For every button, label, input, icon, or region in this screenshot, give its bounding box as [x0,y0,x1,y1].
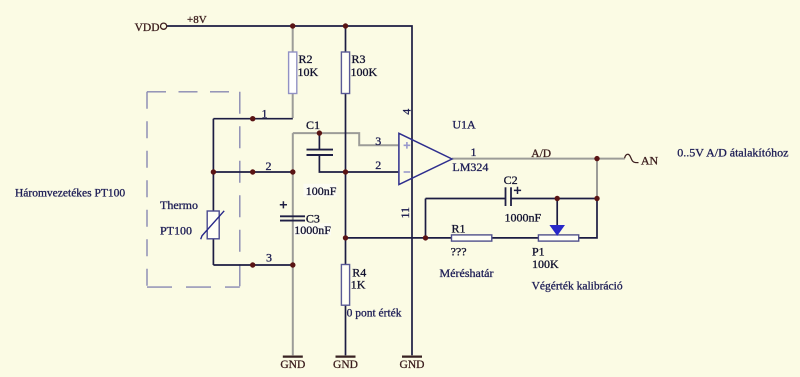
svg-text:GND: GND [333,359,358,371]
svg-text:Háromvezetékes PT100: Háromvezetékes PT100 [15,187,125,199]
svg-text:+8V: +8V [187,14,207,26]
svg-text:1: 1 [471,145,477,159]
svg-text:1000nF: 1000nF [294,223,331,237]
svg-text:0 pont érték: 0 pont érték [347,307,402,319]
svg-text:4: 4 [400,109,414,115]
svg-text:Végérték kalibráció: Végérték kalibráció [532,280,623,292]
svg-text:R2: R2 [299,52,313,66]
svg-text:1000nF: 1000nF [505,211,542,225]
svg-text:11: 11 [398,207,412,219]
svg-text:2: 2 [266,159,272,173]
svg-text:A/D: A/D [531,148,551,160]
svg-text:3: 3 [375,134,381,148]
svg-text:C2: C2 [504,173,518,187]
svg-text:1K: 1K [351,278,366,292]
svg-text:2: 2 [375,158,381,172]
svg-text:U1A: U1A [452,118,476,132]
svg-text:GND: GND [280,359,305,371]
svg-text:GND: GND [400,359,425,371]
svg-text:R1: R1 [452,222,466,236]
svg-text:AN: AN [641,153,659,167]
svg-text:Thermo: Thermo [160,198,198,212]
svg-text:1: 1 [262,107,268,121]
svg-text:PT100: PT100 [160,224,192,238]
svg-text:3: 3 [266,250,272,264]
svg-text:LM324: LM324 [452,160,488,174]
svg-text:100nF: 100nF [306,184,337,198]
svg-text:100K: 100K [532,257,559,271]
svg-text:VDD: VDD [135,22,160,34]
svg-text:10K: 10K [298,65,319,79]
svg-text:Méréshatár: Méréshatár [440,266,494,280]
svg-text:0..5V A/D átalakítóhoz: 0..5V A/D átalakítóhoz [677,146,788,160]
svg-text:100K: 100K [351,65,378,79]
svg-text:C1: C1 [306,118,320,132]
svg-text:???: ??? [451,244,467,258]
svg-text:R3: R3 [352,52,366,66]
